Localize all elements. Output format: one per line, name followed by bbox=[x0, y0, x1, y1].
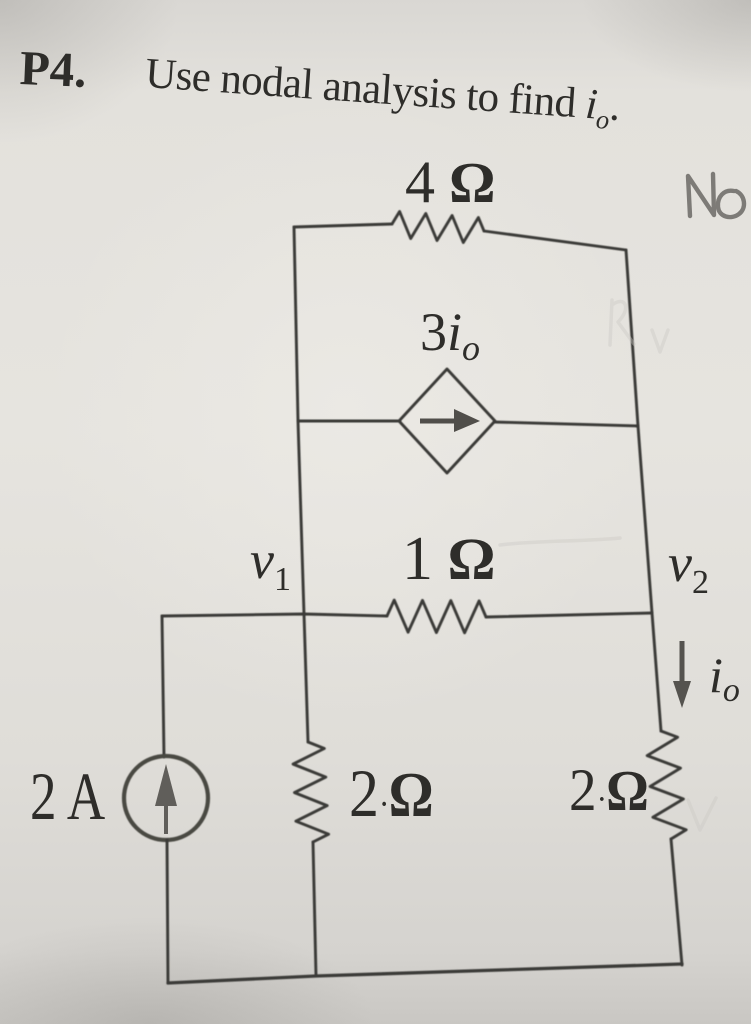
label 2 ohm (left resistor value) bbox=[349, 759, 433, 827]
resistor 2ohm (right, vertical) bbox=[647, 731, 686, 839]
node v2 label bbox=[668, 536, 709, 600]
wire 2A branch vertical lower (current source to bottom wire) bbox=[167, 840, 168, 983]
faint pencil ghost marks bbox=[500, 300, 716, 830]
resistor 1ohm (middle) bbox=[387, 600, 486, 633]
resistor 2ohm (left, vertical) bbox=[293, 742, 329, 842]
wire right vertical branch (top corner down to node v2) bbox=[626, 250, 652, 613]
label 1 ohm (middle resistor value) bbox=[402, 528, 495, 590]
label 2 ohm (right resistor value) bbox=[569, 760, 648, 820]
wire left 2ohm branch upper (v1 down to resistor) bbox=[304, 614, 308, 742]
arrow of dependent source 3io (points right) bbox=[420, 409, 480, 432]
title text: Use nodal analysis to find io bbox=[144, 52, 622, 134]
wire right 2ohm branch lower (resistor to bottom corner) bbox=[671, 839, 682, 965]
wire top-right horizontal (4ohm to right branch) bbox=[484, 231, 626, 250]
node v1 label bbox=[250, 533, 291, 597]
handwriting pencil "No" top right bbox=[688, 174, 744, 217]
current source 2A (circle) bbox=[124, 756, 208, 840]
current arrow io (points down, right side) bbox=[673, 641, 691, 708]
label 4 ohm (top resistor value) bbox=[405, 152, 495, 212]
wire middle-right (dependent source to right branch) bbox=[494, 422, 638, 426]
wire 2A branch vertical upper (corner down to current source) bbox=[162, 616, 164, 757]
wire bottom horizontal (ground rail) bbox=[168, 964, 682, 983]
label io (current through right branch) bbox=[709, 650, 740, 708]
label 2 A (current source value) bbox=[30, 762, 105, 830]
wire left vertical branch (top corner down to node v1) bbox=[294, 227, 304, 614]
resistor 4ohm (top) bbox=[392, 212, 484, 243]
wire right 2ohm branch upper (v2 down to resistor) bbox=[652, 613, 661, 731]
title problem number P4. bbox=[19, 43, 88, 95]
wire node v1 horizontal (2A branch corner to 1ohm resistor) bbox=[162, 614, 387, 616]
wire left 2ohm branch lower (resistor to bottom wire) bbox=[313, 842, 316, 976]
wire middle-left (left branch to dependent source) bbox=[298, 420, 400, 423]
label 3io (dependent source value) bbox=[420, 305, 480, 366]
wire node v2 horizontal (1ohm to right branch) bbox=[486, 613, 652, 617]
wire top-left horizontal (top node to 4ohm resistor) bbox=[294, 224, 392, 227]
dependent current source 3io (diamond) bbox=[399, 369, 495, 473]
arrow of 2A current source (points up) bbox=[155, 764, 177, 834]
